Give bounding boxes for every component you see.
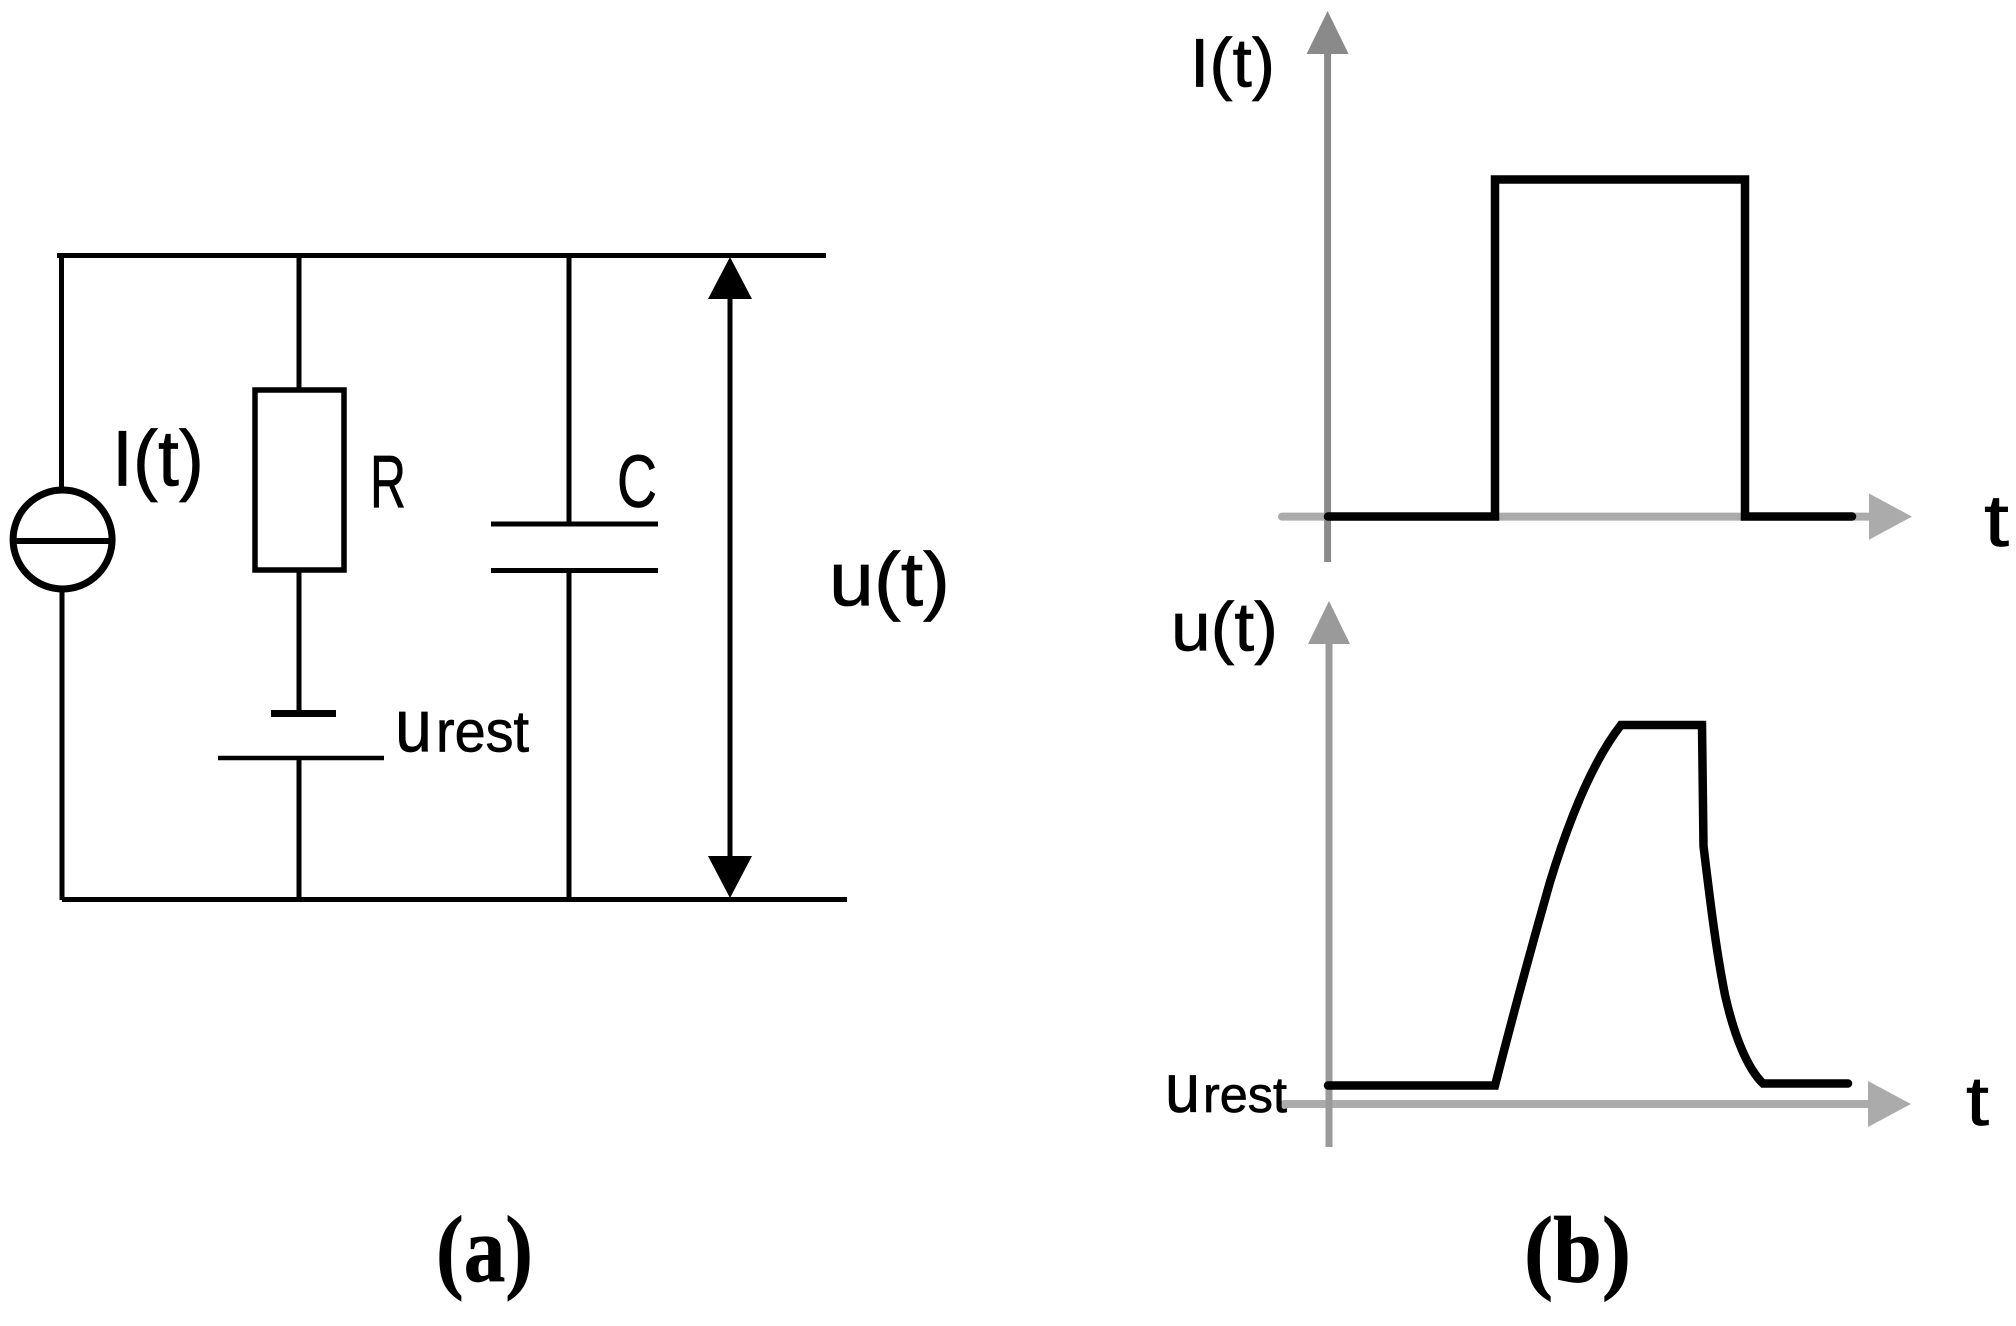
svg-text:u(t): u(t) xyxy=(1171,589,1278,666)
svg-text:t: t xyxy=(1984,481,2009,562)
svg-text:rest: rest xyxy=(1203,1067,1287,1123)
svg-text:I(t): I(t) xyxy=(1190,25,1275,102)
svg-text:C: C xyxy=(617,440,657,523)
svg-text:rest: rest xyxy=(436,700,529,765)
svg-text:(a): (a) xyxy=(436,1198,533,1302)
svg-text:R: R xyxy=(370,440,406,523)
svg-text:u: u xyxy=(395,685,432,768)
svg-text:t: t xyxy=(1966,1062,1989,1140)
svg-text:u: u xyxy=(1165,1050,1200,1127)
svg-text:u(t): u(t) xyxy=(829,538,950,623)
svg-text:(b): (b) xyxy=(1524,1199,1631,1303)
svg-text:I(t): I(t) xyxy=(112,414,204,503)
